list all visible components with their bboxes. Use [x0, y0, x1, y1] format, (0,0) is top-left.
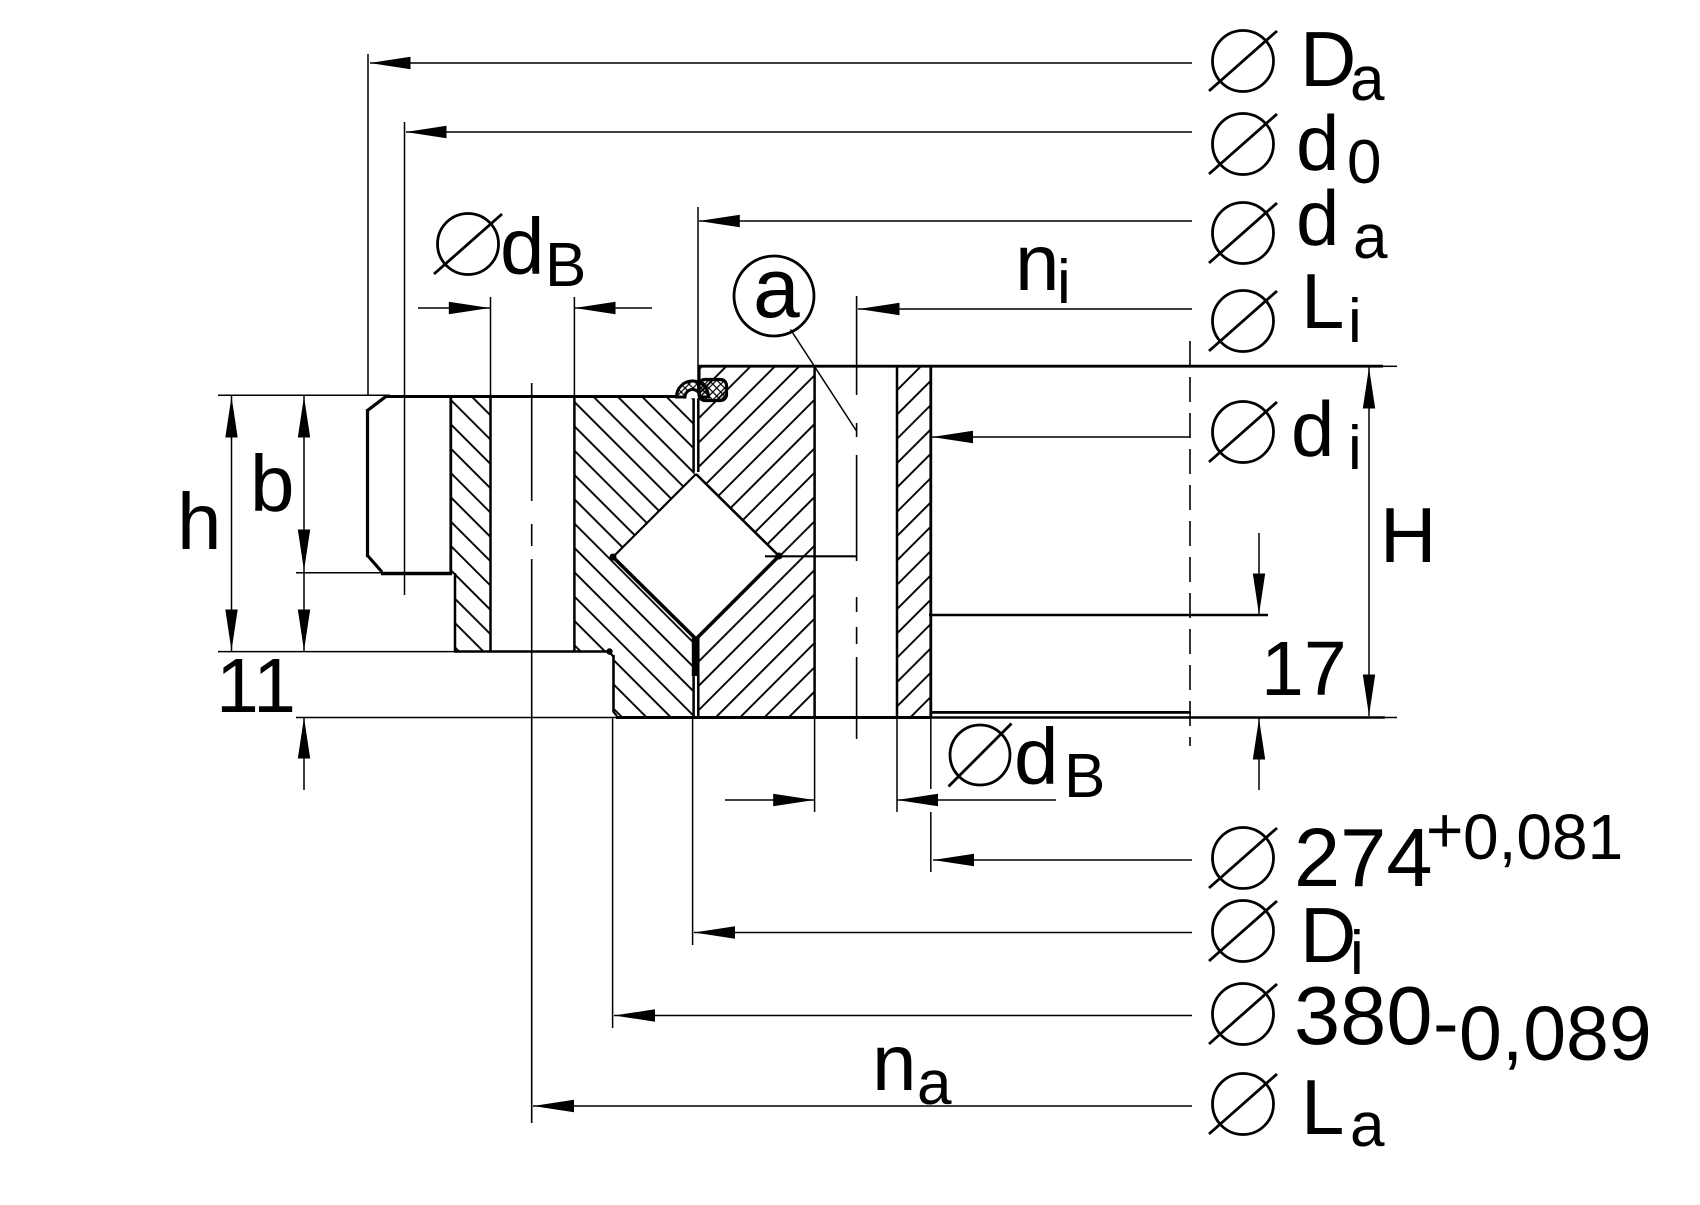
svg-text:i: i: [1348, 414, 1362, 483]
svg-text:D: D: [1300, 891, 1356, 979]
svg-text:i: i: [1350, 919, 1364, 988]
svg-text:h: h: [177, 477, 222, 566]
svg-text:H: H: [1380, 491, 1436, 579]
svg-text:B: B: [1064, 742, 1105, 811]
svg-text:L: L: [1301, 257, 1344, 345]
svg-text:i: i: [1057, 248, 1071, 317]
svg-text:a: a: [753, 241, 800, 335]
svg-text:0,089: 0,089: [1459, 991, 1652, 1077]
svg-text:L: L: [1301, 1063, 1344, 1151]
svg-text:274: 274: [1294, 811, 1432, 904]
svg-text:n: n: [1015, 218, 1060, 307]
svg-text:a: a: [917, 1049, 952, 1118]
svg-text:0: 0: [1347, 128, 1381, 197]
svg-text:-: -: [1433, 980, 1459, 1066]
svg-text:d: d: [1296, 174, 1339, 262]
svg-text:i: i: [1348, 287, 1362, 356]
svg-text:d: d: [1291, 385, 1334, 473]
svg-text:n: n: [872, 1018, 917, 1107]
svg-text:d: d: [500, 202, 545, 291]
svg-text:a: a: [1350, 1091, 1385, 1160]
svg-text:11: 11: [216, 643, 296, 729]
svg-text:a: a: [1353, 203, 1388, 272]
svg-text:a: a: [1350, 45, 1385, 114]
svg-text:D: D: [1300, 15, 1356, 103]
svg-text:B: B: [545, 231, 586, 300]
svg-text:b: b: [250, 439, 295, 528]
svg-text:+: +: [1426, 794, 1463, 866]
svg-text:0,081: 0,081: [1463, 801, 1623, 873]
svg-text:d: d: [1014, 712, 1059, 801]
svg-text:17: 17: [1261, 626, 1347, 712]
